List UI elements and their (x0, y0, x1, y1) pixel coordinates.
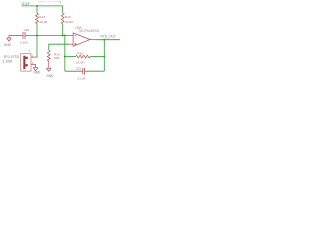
svg-text:20.0K: 20.0K (65, 20, 74, 24)
junction R13 bottom (62, 34, 64, 36)
svg-text:C22: C22 (76, 67, 82, 71)
junction VDD/R12 (36, 5, 38, 7)
resistor R13 (61, 13, 64, 24)
resistor R15 (76, 55, 90, 58)
op-amp U5A triangle (73, 33, 90, 46)
wire R15 right (90, 56, 104, 58)
minus input marker (74, 34, 76, 36)
svg-text:RTD_OUT: RTD_OUT (100, 34, 116, 38)
wire VDD corner to R13 (62, 6, 64, 14)
wire C19 to minus-net (27, 34, 69, 36)
connector P1 body (21, 54, 31, 71)
pin C19 left (20, 34, 22, 36)
svg-text:C19: C19 (24, 28, 30, 32)
wire R14 bottom (48, 61, 50, 68)
ground GND2 (R14) (46, 68, 51, 71)
svg-text:549: 549 (54, 56, 59, 60)
pin minus stub (69, 34, 73, 36)
wire pin2 to GND3 (35, 64, 37, 67)
contact nub pin2 (25, 64, 27, 66)
svg-text:0.1uF: 0.1uF (20, 40, 28, 44)
capacitor C19 (23, 32, 25, 39)
svg-text:MCP6482SN: MCP6482SN (79, 29, 99, 33)
svg-text:GND: GND (33, 71, 41, 75)
junction feedback tap (64, 35, 66, 37)
wire feedback left vertical (64, 35, 66, 71)
wire output (96, 39, 120, 41)
wire RTD drop (34, 35, 37, 57)
pin 1 of P1 (31, 56, 34, 58)
plus input marker (74, 43, 76, 45)
ground GND1 (left) (7, 35, 12, 41)
svg-text:20.0K: 20.0K (39, 20, 48, 24)
svg-text:R15: R15 (77, 52, 83, 56)
wire R15 left (65, 56, 76, 58)
svg-text:R13: R13 (65, 15, 71, 19)
svg-text:GND: GND (46, 74, 54, 78)
contact nub pin1 (25, 57, 27, 59)
pin plus stub (69, 43, 73, 45)
wire feedback right vertical (103, 40, 105, 71)
wire VDD rail (22, 5, 63, 7)
ground GND3 (RTD) (33, 68, 38, 71)
capacitor C22 (83, 68, 85, 75)
pin C19 right (25, 34, 27, 36)
svg-text:GND: GND (4, 43, 12, 47)
wire C22 left (65, 70, 83, 72)
junction R15 left (64, 56, 66, 58)
wire R13 bottom (62, 24, 64, 36)
wire R12 bottom (36, 24, 38, 36)
svg-text:R12: R12 (39, 15, 45, 19)
resistor R14 (47, 50, 50, 61)
svg-text:VDDF: VDDF (21, 2, 31, 6)
junction R15 right (103, 56, 105, 58)
svg-text:20.0K: 20.0K (76, 60, 85, 64)
svg-text:5: 5 (29, 49, 31, 53)
wire R12 top (36, 6, 38, 13)
wire plus-net (49, 44, 70, 50)
resistor R12 (36, 13, 39, 24)
svg-text:1.00K: 1.00K (3, 60, 13, 64)
wire GND1 to C19 (9, 34, 21, 36)
junction node A (R12 bottom) (36, 34, 38, 36)
wire C22 right (85, 70, 105, 72)
svg-text:JP1 RTD: JP1 RTD (3, 55, 19, 59)
svg-text:0.1uF: 0.1uF (78, 76, 86, 80)
pin 2 of P1 (31, 64, 36, 66)
connector P1 contact bar (23, 56, 25, 69)
pin output stub (90, 39, 96, 41)
junction output/feedback (103, 39, 105, 41)
